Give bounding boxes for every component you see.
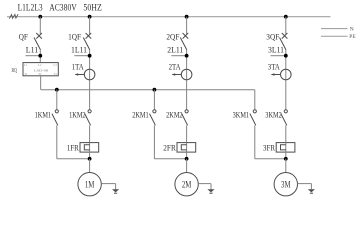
svg-text:3KM1: 3KM1 xyxy=(233,110,250,119)
breaker 3QF xyxy=(282,33,288,39)
wire PE xyxy=(321,35,348,37)
svg-text:3M: 3M xyxy=(281,179,291,189)
node: sub-bus tap for 2KM1 xyxy=(153,88,157,92)
svg-text:2KM2: 2KM2 xyxy=(166,110,183,119)
wire 3QF to 3TA xyxy=(285,50,287,80)
bus break symbol (continuation marks) xyxy=(9,14,18,18)
svg-text:LSD-08: LSD-08 xyxy=(34,68,49,72)
wire 2KM1 to junction xyxy=(153,125,155,159)
motor 1M xyxy=(78,173,101,196)
svg-text:1FR: 1FR xyxy=(67,144,80,153)
svg-text:2FR: 2FR xyxy=(163,144,176,153)
svg-text:QF: QF xyxy=(19,33,29,42)
svg-text:3L11: 3L11 xyxy=(268,45,284,54)
wire 1KM1 to junction xyxy=(56,125,58,159)
svg-text:L2: L2 xyxy=(38,64,42,67)
svg-text:2L11: 2L11 xyxy=(167,45,183,54)
wire bus to QF xyxy=(39,17,41,35)
thermal relay 1FR xyxy=(80,143,99,153)
wire 3TA to 3KM2 xyxy=(285,80,287,110)
node: bus tap for QF xyxy=(38,15,42,19)
node 1L11 (wire label leader) xyxy=(74,55,89,57)
contactor 3KM1 xyxy=(253,110,256,113)
node: bus tap for 2QF xyxy=(185,15,189,19)
motor 3M xyxy=(274,173,297,196)
contactor 3KM2 xyxy=(284,110,287,113)
svg-text:2TA: 2TA xyxy=(169,62,181,71)
svg-text:1KM2: 1KM2 xyxy=(69,110,86,119)
svg-text:3QF: 3QF xyxy=(266,33,279,42)
svg-text:3KM2: 3KM2 xyxy=(265,110,282,119)
svg-text:RQ: RQ xyxy=(12,68,18,74)
wire 1QF to 1TA xyxy=(89,50,91,80)
svg-text:1M: 1M xyxy=(85,179,95,189)
wire motor 2M to earth xyxy=(198,183,211,185)
wire 3KM1 to junction xyxy=(254,125,256,159)
svg-text:N: N xyxy=(350,27,354,33)
node: sub-bus tap for 1KM1 xyxy=(55,88,59,92)
node: 1FR output junction xyxy=(88,157,92,161)
wire bus to 2QF xyxy=(186,17,188,35)
svg-text:1L11: 1L11 xyxy=(71,45,87,54)
wire motor 3M to earth xyxy=(298,183,312,185)
contactor 1KM1 xyxy=(55,110,58,113)
wire sub-bus to 1KM1 xyxy=(56,90,58,110)
wire 2QF to 2TA xyxy=(186,50,188,80)
svg-text:L3: L3 xyxy=(54,64,58,67)
svg-text:L1L2L3: L1L2L3 xyxy=(18,4,43,14)
wire bus to 1QF xyxy=(89,17,91,35)
ground (motor 2M frame earth) xyxy=(207,189,214,192)
breaker QF xyxy=(34,33,42,50)
wire N xyxy=(321,28,348,30)
wire 1KM2 to 1FR xyxy=(89,125,91,142)
contactor 2KM2 xyxy=(185,110,188,113)
svg-text:2QF: 2QF xyxy=(166,33,179,42)
node: 3FR output junction xyxy=(284,157,288,161)
sub-bus wire (RQ output feeder) xyxy=(41,89,255,91)
node: 2FR output junction xyxy=(185,157,189,161)
wire junction to motor 2M xyxy=(186,159,188,173)
svg-text:2KM1: 2KM1 xyxy=(132,110,149,119)
node L11 (wire label leader) xyxy=(26,55,41,57)
soft starter RQ (box) xyxy=(23,63,58,76)
svg-text:3FR: 3FR xyxy=(263,144,276,153)
current transformer 3TA xyxy=(281,69,292,80)
current transformer 1TA xyxy=(84,69,95,80)
node: bus tap for 3QF xyxy=(284,15,288,19)
svg-text:1KM1: 1KM1 xyxy=(35,110,52,119)
wire 2TA to 2KM2 xyxy=(186,80,188,110)
node: bus tap for 1QF xyxy=(88,15,92,19)
motor 2M xyxy=(175,173,198,196)
thermal relay 2FR xyxy=(177,143,196,153)
wire junction to motor 1M xyxy=(89,159,91,173)
wire 3KM2 to 3FR xyxy=(285,125,287,142)
breaker 1QF xyxy=(86,33,92,39)
svg-text:L11: L11 xyxy=(26,45,38,54)
svg-text:PE: PE xyxy=(349,34,356,40)
wire junction to motor 3M xyxy=(285,159,287,173)
svg-text:50HZ: 50HZ xyxy=(83,4,102,14)
wire motor 1M to earth xyxy=(101,183,115,185)
svg-text:1TA: 1TA xyxy=(72,62,84,71)
node 2L11 (wire label leader) xyxy=(171,55,186,57)
thermal relay 3FR xyxy=(276,143,295,153)
contactor 1KM2 xyxy=(88,110,91,113)
ground (motor 3M frame earth) xyxy=(308,189,315,192)
wire sub-bus to 3KM1 xyxy=(254,90,256,110)
svg-text:2M: 2M xyxy=(182,179,192,189)
wire 2KM2 to 2FR xyxy=(186,125,188,142)
svg-text:L1: L1 xyxy=(24,64,28,67)
wire bus to 3QF xyxy=(285,17,287,35)
wire 1TA to 1KM2 xyxy=(89,80,91,110)
wire RQ to sub-bus xyxy=(40,76,42,90)
breaker 2QF xyxy=(183,33,189,39)
wire sub-bus to 2KM1 xyxy=(153,90,155,110)
current transformer 2TA xyxy=(181,69,192,80)
svg-text:AC380V: AC380V xyxy=(49,4,77,14)
svg-text:1QF: 1QF xyxy=(68,33,81,42)
bus L1 L2 L3 (AC380V 50HZ main busbar) xyxy=(7,16,331,18)
node 3L11 (wire label leader) xyxy=(271,55,286,57)
ground (motor 1M frame earth) xyxy=(112,189,119,192)
contactor 2KM1 xyxy=(153,110,156,113)
svg-text:3TA: 3TA xyxy=(268,62,280,71)
wire QF to RQ xyxy=(39,50,41,63)
